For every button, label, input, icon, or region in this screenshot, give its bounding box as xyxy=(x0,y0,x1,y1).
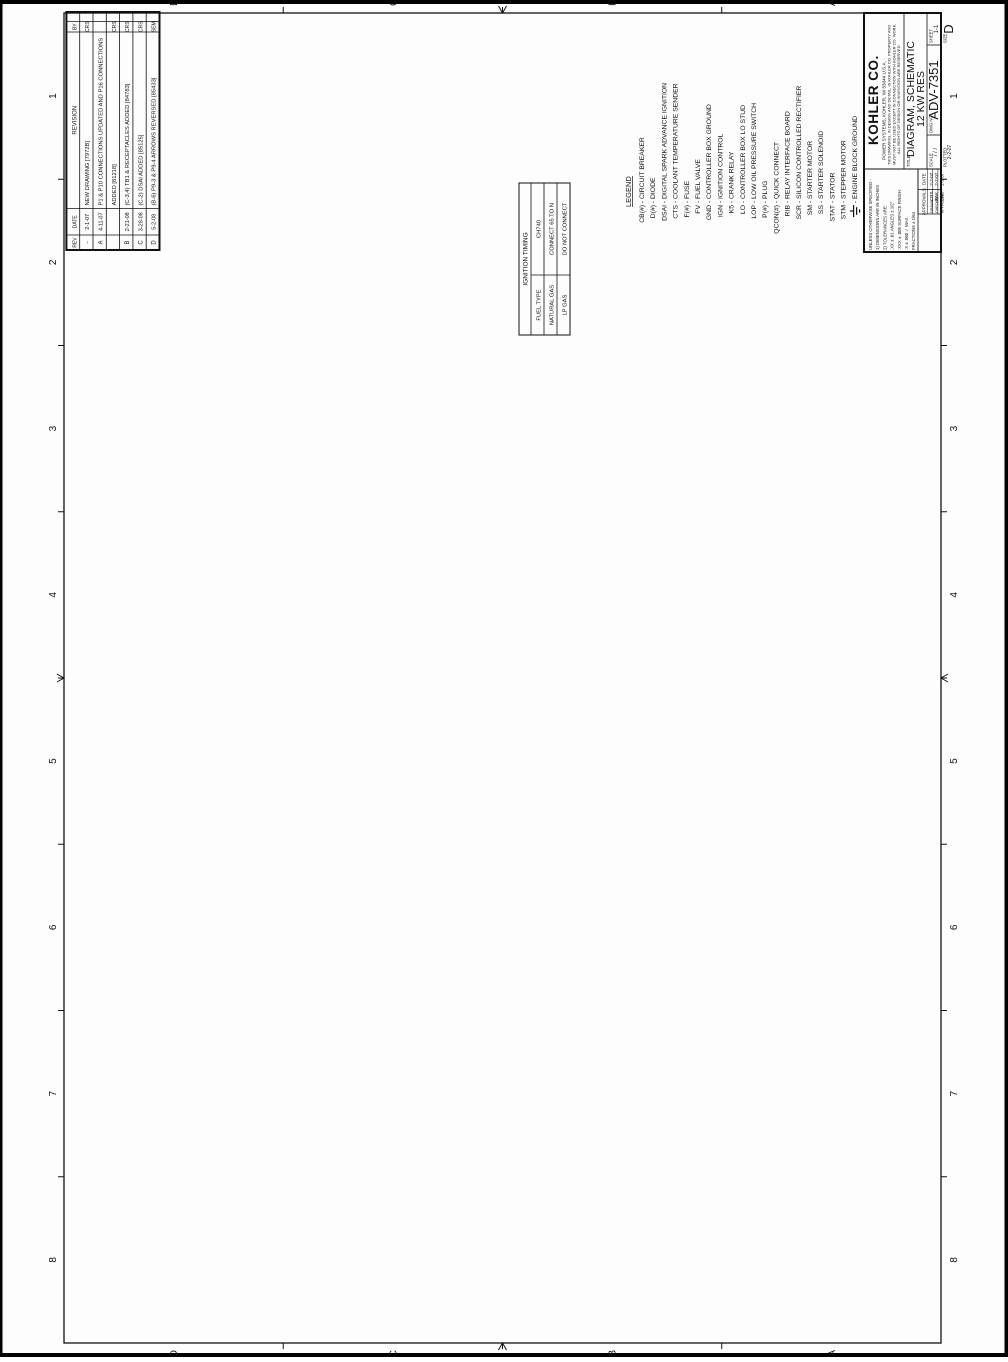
svg-text:A: A xyxy=(827,1350,838,1357)
svg-text:QCON(#): QCON(#) xyxy=(773,205,780,234)
svg-text:ADDED [81218]: ADDED [81218] xyxy=(112,164,118,206)
svg-text:-: - xyxy=(684,201,691,203)
legend engine block ground symbol entry xyxy=(850,205,860,217)
ignition timing table xyxy=(519,183,570,335)
svg-text:CRS: CRS xyxy=(125,21,131,32)
svg-text:DATE: DATE xyxy=(922,173,927,185)
svg-text:4-11-07: 4-11-07 xyxy=(99,212,105,231)
svg-text:A: A xyxy=(99,240,105,244)
svg-text:FUEL TYPE: FUEL TYPE xyxy=(537,289,543,320)
svg-text:REV: REV xyxy=(73,237,79,248)
svg-text:ADV-7351: ADV-7351 xyxy=(926,60,941,119)
svg-text:(C-3,4) TB1 & RECEPTACLES ADDE: (C-3,4) TB1 & RECEPTACLES ADDED [84783] xyxy=(125,83,131,205)
svg-text:-: - xyxy=(818,201,825,203)
svg-text:FUSE: FUSE xyxy=(684,180,691,199)
svg-text:-: - xyxy=(785,201,792,203)
svg-text:SHEET: SHEET xyxy=(929,29,934,43)
svg-text:LP GAS: LP GAS xyxy=(563,294,569,315)
svg-text:1-1: 1-1 xyxy=(934,24,940,33)
svg-text:C: C xyxy=(388,1350,399,1357)
svg-text:D: D xyxy=(152,240,158,245)
svg-text:2-2-07: 2-2-07 xyxy=(939,172,944,186)
svg-text:STARTER SOLENOID: STARTER SOLENOID xyxy=(818,131,825,199)
svg-text:7: 7 xyxy=(949,1090,960,1096)
svg-text:-: - xyxy=(773,201,780,203)
svg-text:CB(#): CB(#) xyxy=(639,205,646,223)
svg-text:.XX ± .01 ANGLES ± 1/2°: .XX ± .01 ANGLES ± 1/2° xyxy=(890,201,895,250)
zone ticks and labels - columns 1-8 top/bottom xyxy=(58,1176,64,1178)
svg-text:F(#): F(#) xyxy=(684,205,691,217)
frame centre arrows xyxy=(57,674,64,682)
svg-text:5: 5 xyxy=(949,758,960,764)
svg-text:8: 8 xyxy=(48,1257,59,1263)
svg-text:K5: K5 xyxy=(729,205,736,214)
svg-text:7: 7 xyxy=(48,1090,59,1096)
svg-text:2) TOLERANCES ARE:: 2) TOLERANCES ARE: xyxy=(882,205,887,250)
svg-text:-: - xyxy=(751,201,758,203)
svg-text:IGNITION TIMING: IGNITION TIMING xyxy=(523,232,530,285)
svg-text:CTS: CTS xyxy=(673,205,680,219)
svg-text:-: - xyxy=(695,201,702,203)
svg-text:6: 6 xyxy=(48,924,59,930)
svg-text:4: 4 xyxy=(949,592,960,598)
title text xyxy=(903,13,905,169)
svg-text:RIB: RIB xyxy=(785,205,792,217)
svg-text:APPROVALS: APPROVALS xyxy=(922,188,927,215)
svg-text:REVISION: REVISION xyxy=(73,106,79,135)
svg-text:IGN: IGN xyxy=(717,205,724,217)
svg-text:4: 4 xyxy=(48,592,59,598)
svg-text:DO NOT CONNECT: DO NOT CONNECT xyxy=(563,202,569,255)
svg-text:3: 3 xyxy=(949,425,960,431)
svg-text:B: B xyxy=(125,240,131,244)
svg-text:-: - xyxy=(729,201,736,203)
svg-text:D: D xyxy=(941,24,956,33)
svg-text:CONNECT 65 TO N: CONNECT 65 TO N xyxy=(550,203,556,255)
revision table xyxy=(66,12,159,250)
svg-text:CH740: CH740 xyxy=(537,220,543,238)
svg-text:-: - xyxy=(661,201,668,203)
svg-text:-: - xyxy=(841,201,848,203)
svg-text:STAT: STAT xyxy=(829,205,836,221)
svg-text:2: 2 xyxy=(48,259,59,265)
svg-text:B: B xyxy=(608,0,619,6)
svg-text:SS: SS xyxy=(818,205,825,215)
svg-text:-: - xyxy=(717,201,724,203)
svg-text:NATURAL GAS: NATURAL GAS xyxy=(550,285,556,325)
svg-text:8: 8 xyxy=(949,1257,960,1263)
svg-text:DATE: DATE xyxy=(73,215,79,229)
svg-text:DIODE: DIODE xyxy=(650,177,657,199)
title block approvals table xyxy=(918,213,941,215)
svg-text:-: - xyxy=(650,201,657,203)
svg-text:-: - xyxy=(852,201,859,203)
svg-text:.X ± .060 ✓ MAX.: .X ± .060 ✓ MAX. xyxy=(904,216,909,250)
svg-text:(C-2) DSAI ADDED [85125]: (C-2) DSAI ADDED [85125] xyxy=(138,134,144,205)
svg-text:FUEL VALVE: FUEL VALVE xyxy=(695,159,702,199)
svg-text:FV: FV xyxy=(695,205,702,214)
svg-text:-: - xyxy=(639,201,646,203)
svg-text:-: - xyxy=(85,242,91,244)
svg-text:CONTROLLER BOX LO STUD: CONTROLLER BOX LO STUD xyxy=(740,105,747,199)
svg-text:QUICK CONNECT: QUICK CONNECT xyxy=(773,142,780,199)
svg-text:B: B xyxy=(608,1350,619,1357)
svg-text:STARTER MOTOR: STARTER MOTOR xyxy=(807,141,814,199)
svg-text:D: D xyxy=(169,1350,180,1357)
svg-text:CRS: CRS xyxy=(85,21,91,32)
svg-text:-: - xyxy=(706,201,713,203)
svg-text:PLUG: PLUG xyxy=(762,180,769,199)
svg-text:C: C xyxy=(138,240,144,245)
svg-text:BAK: BAK xyxy=(939,192,944,201)
svg-text:-: - xyxy=(740,201,747,203)
svg-text:2: 2 xyxy=(949,259,960,265)
svg-text:CRS: CRS xyxy=(112,21,118,32)
svg-text:D(#): D(#) xyxy=(650,205,657,218)
svg-text:-: - xyxy=(762,201,769,203)
svg-text:2-21-08: 2-21-08 xyxy=(125,212,131,231)
svg-text:P1 & P10 CONNECTIONS UPDATED A: P1 & P10 CONNECTIONS UPDATED AND P16 CON… xyxy=(99,38,105,206)
svg-text:STATOR: STATOR xyxy=(829,172,836,199)
svg-text:LOW OIL PRESSURE SWITCH: LOW OIL PRESSURE SWITCH xyxy=(751,103,758,199)
title block bottom strip: scale/plotted/dwg no/size/sheet xyxy=(926,13,928,169)
svg-text:CONTROLLER BOX GROUND: CONTROLLER BOX GROUND xyxy=(706,104,713,199)
svg-text:GND: GND xyxy=(706,205,713,220)
svg-text:SEM: SEM xyxy=(152,21,158,32)
svg-text:LOP: LOP xyxy=(751,205,758,219)
svg-text:-: - xyxy=(796,201,803,203)
svg-text:SILICON CONTROLLED RECTIFIER: SILICON CONTROLLED RECTIFIER xyxy=(796,86,803,199)
svg-text:2-2-07: 2-2-07 xyxy=(947,145,953,160)
svg-text:IGNITION CONTROL: IGNITION CONTROL xyxy=(717,133,724,199)
svg-text:LEGEND: LEGEND xyxy=(624,176,633,207)
svg-text:.XXX ± .005 SURFACE FINISH: .XXX ± .005 SURFACE FINISH xyxy=(897,190,902,250)
svg-text:LO: LO xyxy=(740,205,747,214)
svg-text:COOLANT TEMPERATURE SENDER: COOLANT TEMPERATURE SENDER xyxy=(673,83,680,199)
svg-text:(B-6) P9-3 & P9-4 ARROWS REVER: (B-6) P9-3 & P9-4 ARROWS REVERSED [85433… xyxy=(152,77,158,205)
svg-text:CRS: CRS xyxy=(138,21,144,32)
svg-text:P(#): P(#) xyxy=(762,205,769,218)
svg-text:3-28-08: 3-28-08 xyxy=(138,212,144,231)
svg-text:-: - xyxy=(829,201,836,203)
svg-text:SM: SM xyxy=(807,205,814,216)
svg-text:STEPPER MOTOR: STEPPER MOTOR xyxy=(841,140,848,199)
svg-text:5-2-08: 5-2-08 xyxy=(152,214,158,230)
svg-text:C: C xyxy=(388,0,399,6)
svg-text:UNLESS OTHERWISE SPECIFIED -: UNLESS OTHERWISE SPECIFIED - xyxy=(868,179,873,250)
svg-text:1: 1 xyxy=(949,93,960,99)
svg-text:CRANK RELAY: CRANK RELAY xyxy=(729,151,736,199)
svg-text:BY: BY xyxy=(73,23,79,30)
svg-text:CIRCUIT BREAKER: CIRCUIT BREAKER xyxy=(639,137,646,199)
svg-text:SIZE: SIZE xyxy=(943,33,948,43)
svg-text:-: - xyxy=(673,201,680,203)
svg-text:3: 3 xyxy=(48,425,59,431)
zone ticks and labels - rows D,C,B,A sides xyxy=(282,1343,284,1349)
svg-text:-: - xyxy=(807,201,814,203)
svg-text:RELAY INTERFACE BOARD: RELAY INTERFACE BOARD xyxy=(785,111,792,199)
svg-text:/ / /: / / / xyxy=(933,148,939,157)
svg-text:FRACTIONS ± 1/64: FRACTIONS ± 1/64 xyxy=(911,211,916,250)
svg-text:ENGINE BLOCK GROUND: ENGINE BLOCK GROUND xyxy=(852,116,859,199)
svg-text:STM: STM xyxy=(841,205,848,220)
svg-text:ALL RIGHTS OF DESIGN OR INVENT: ALL RIGHTS OF DESIGN OR INVENTION ARE RE… xyxy=(896,44,901,154)
title block xyxy=(864,13,941,252)
page edge black strips (scan border) xyxy=(0,0,1008,4)
svg-text:KOHLER CO.: KOHLER CO. xyxy=(866,55,881,145)
svg-text:A: A xyxy=(827,0,838,6)
svg-text:SCR: SCR xyxy=(796,205,803,219)
svg-text:D: D xyxy=(169,0,180,6)
svg-text:1: 1 xyxy=(48,93,59,99)
svg-text:NEW DRAWING [7972B]: NEW DRAWING [7972B] xyxy=(85,141,91,206)
svg-text:DIGITAL SPARK ADVANCE IGNITION: DIGITAL SPARK ADVANCE IGNITION xyxy=(661,83,668,199)
svg-text:2-1-07: 2-1-07 xyxy=(85,214,91,230)
svg-text:1) DIMENSIONS ARE IN INCHES: 1) DIMENSIONS ARE IN INCHES xyxy=(875,185,880,250)
svg-text:DSAI: DSAI xyxy=(661,205,668,221)
svg-text:6: 6 xyxy=(949,924,960,930)
svg-text:5: 5 xyxy=(48,758,59,764)
